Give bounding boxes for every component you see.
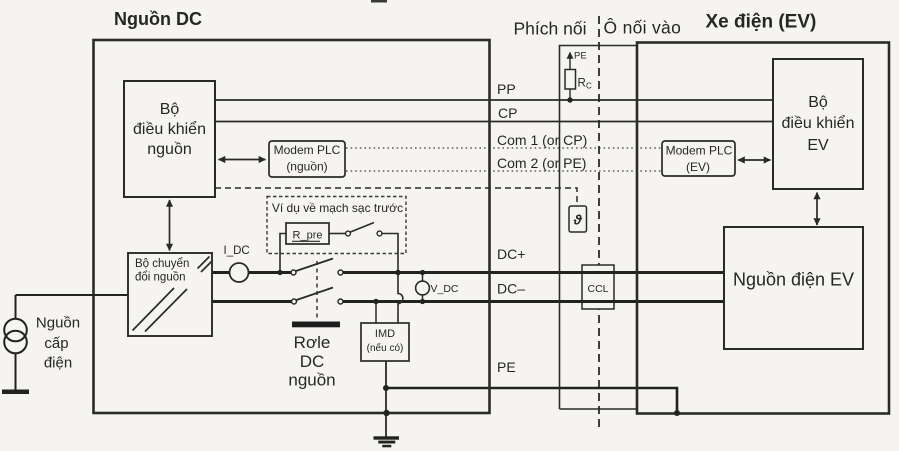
svg-text:Bộ: Bộ [160, 101, 180, 118]
svg-text:điều khiển: điều khiển [133, 120, 206, 138]
svg-text:(nguồn): (nguồn) [286, 160, 327, 174]
svg-text:Xe điện (EV): Xe điện (EV) [706, 12, 817, 33]
svg-text:Rơle: Rơle [294, 333, 331, 352]
svg-text:ϑ: ϑ [573, 212, 583, 228]
svg-text:I_DC: I_DC [224, 245, 250, 257]
svg-text:Modem PLC: Modem PLC [274, 143, 341, 157]
svg-text:(nếu có): (nếu có) [367, 342, 404, 354]
svg-text:Com 1 (or CP): Com 1 (or CP) [497, 132, 587, 148]
svg-text:Bộ: Bộ [808, 94, 828, 111]
svg-text:Nguồn điện EV: Nguồn điện EV [733, 270, 854, 290]
svg-text:EV: EV [807, 137, 829, 154]
svg-text:nguồn: nguồn [288, 371, 335, 390]
svg-text:Bộ chuyển: Bộ chuyển [135, 258, 189, 270]
svg-text:Ô nối vào: Ô nối vào [604, 17, 682, 38]
svg-text:nguồn: nguồn [147, 141, 192, 158]
svg-text:điều khiển: điều khiển [782, 114, 855, 132]
svg-text:V_DC: V_DC [431, 283, 459, 295]
svg-text:DC: DC [300, 352, 325, 371]
svg-text:Nguồn DC: Nguồn DC [114, 9, 202, 29]
svg-text:CP: CP [498, 105, 517, 121]
svg-text:Modem PLC: Modem PLC [666, 144, 733, 158]
svg-text:Ví dụ về mạch sạc trước: Ví dụ về mạch sạc trước [272, 201, 403, 215]
svg-text:R: R [578, 78, 586, 90]
svg-text:PP: PP [497, 81, 516, 97]
svg-text:PE: PE [497, 359, 516, 375]
svg-text:DC+: DC+ [497, 246, 525, 262]
svg-text:đổi nguồn: đổi nguồn [135, 272, 186, 284]
svg-text:Phích nối: Phích nối [514, 19, 587, 39]
svg-text:Nguồn: Nguồn [36, 315, 80, 332]
svg-text:cấp: cấp [44, 335, 68, 352]
svg-text:CCL: CCL [587, 283, 608, 295]
svg-text:PE: PE [574, 51, 587, 62]
svg-text:C: C [586, 82, 592, 91]
svg-text:điện: điện [44, 355, 72, 372]
svg-text:(EV): (EV) [686, 160, 710, 174]
svg-text:IMD: IMD [375, 328, 395, 340]
svg-text:DC–: DC– [497, 281, 525, 297]
svg-text:R_pre: R_pre [293, 230, 323, 242]
svg-text:Com 2 (or PE): Com 2 (or PE) [497, 155, 586, 171]
